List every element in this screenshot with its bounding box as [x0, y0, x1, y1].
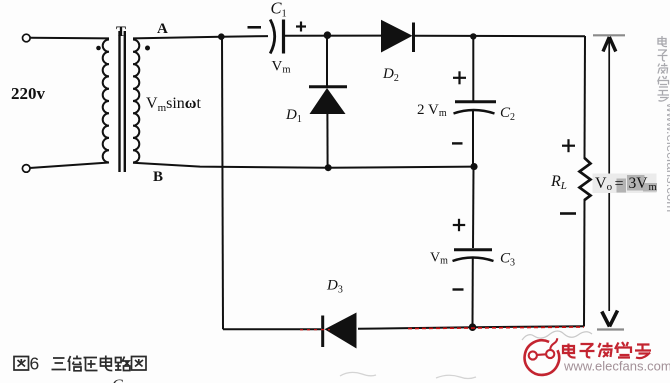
wire primary top	[30, 37, 109, 40]
measurement arrow vertical line	[608, 37, 610, 176]
highlight box equal	[617, 179, 627, 193]
wire D2 to corner	[415, 35, 585, 37]
logo chain link trace	[529, 338, 558, 359]
wire D1 anode to B rail	[326, 114, 328, 168]
label minus C3	[453, 288, 464, 290]
node junction D1 top	[324, 31, 332, 39]
svg-text:A: A	[157, 21, 168, 37]
glyph lu	[115, 357, 130, 371]
caption 图6 三倍压电路图	[0, 352, 160, 382]
wire C1 to D2	[285, 35, 382, 37]
svg-text:m: m	[649, 182, 657, 193]
highlight box m	[643, 183, 657, 192]
diode D2	[381, 20, 413, 53]
wire secondary top (A) to C1	[133, 36, 268, 38]
wire node N2 to C2 top	[472, 36, 474, 101]
wire C3 bottom to bottom rail	[472, 257, 474, 327]
transformer T primary winding	[103, 40, 109, 163]
elecfans logo	[516, 328, 670, 383]
logo ring	[525, 340, 560, 375]
polarity dot secondary	[145, 46, 150, 51]
wire node N1 to D1 cathode	[326, 35, 328, 86]
node junction at A branch	[218, 33, 225, 40]
measurement arrow tick bottom	[597, 328, 624, 330]
partial italic C below caption	[110, 374, 134, 383]
glyph san	[52, 358, 67, 370]
wire C2 bottom to B rail	[472, 111, 474, 167]
label plus RL	[562, 145, 575, 147]
highlight box 3V	[627, 175, 645, 191]
node junction C2 top	[470, 33, 476, 39]
label plus C2	[453, 77, 466, 79]
terminal top-left	[23, 34, 31, 42]
highlight wash behind Vo text	[593, 174, 657, 194]
faint pencil squiggle 3	[436, 375, 476, 378]
capacitor C2	[455, 100, 496, 103]
label plus C3	[453, 224, 465, 226]
diode D1	[309, 85, 347, 88]
right edge watermark CJK dianzifashaoyou vertical	[658, 36, 670, 101]
glyph tu	[14, 357, 29, 371]
terminal bottom-left	[22, 165, 30, 173]
measurement arrow bottom head	[602, 311, 618, 327]
measurement arrow ticks top	[593, 34, 625, 36]
svg-text:=: =	[615, 176, 624, 193]
capacitor C1	[270, 20, 275, 54]
resistor RL zigzag	[580, 158, 591, 200]
node junction D1 bottom	[325, 164, 332, 171]
faint pencil squiggle 2	[340, 372, 376, 376]
svg-text:6: 6	[30, 354, 40, 374]
wire secondary bottom rail B	[133, 163, 474, 168]
svg-text:T: T	[116, 24, 126, 40]
wire B rail to C3 top	[472, 167, 475, 249]
wire right vertical top	[584, 36, 587, 159]
faint pencil squiggle 1	[522, 331, 592, 340]
polarity dot primary	[96, 46, 101, 51]
label plus C1	[296, 25, 306, 27]
glyph ya	[84, 358, 98, 371]
glyph tu2	[132, 357, 147, 371]
svg-text:www.elecfans.com: www.elecfans.com	[664, 102, 670, 212]
svg-text:3V: 3V	[629, 175, 649, 192]
label minus C1	[248, 26, 262, 29]
red dashed artifact on bottom rail	[408, 327, 584, 329]
svg-text:B: B	[153, 169, 163, 185]
wire primary bottom	[30, 163, 110, 169]
wire A-branch vertical down to bottom rail	[222, 37, 223, 330]
capacitor C3	[454, 248, 492, 251]
node junction C2 bottom	[470, 163, 477, 170]
bottom rail wire	[223, 328, 321, 330]
logo text dianzifashaoyou	[563, 342, 651, 358]
measurement arrow top head	[603, 37, 616, 52]
label minus C2	[452, 142, 463, 144]
node junction C3 bottom	[469, 323, 477, 331]
svg-text:C: C	[112, 377, 123, 383]
transformer core	[118, 31, 120, 172]
wire right vertical bottom	[583, 199, 586, 327]
glyph dian	[101, 356, 113, 371]
label minus RL	[560, 212, 576, 215]
transformer T secondary winding	[133, 40, 139, 163]
diode D3	[321, 316, 324, 348]
svg-text:Vmsinωt: Vmsinωt	[146, 95, 202, 114]
svg-text:220v: 220v	[11, 84, 46, 103]
svg-text:www.elecfans.com: www.elecfans.com	[563, 359, 670, 374]
glyph bei	[68, 356, 82, 372]
